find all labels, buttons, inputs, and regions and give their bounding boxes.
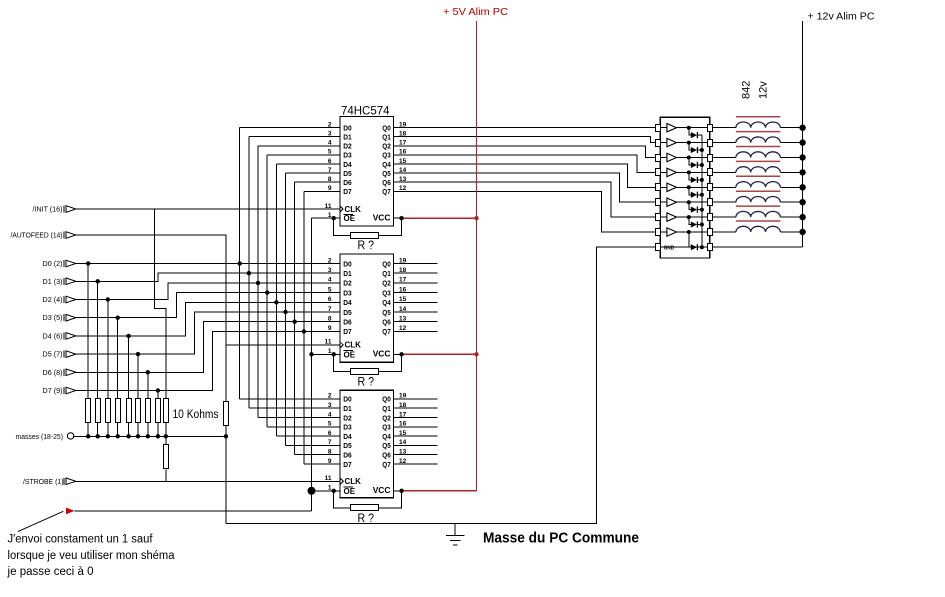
svg-text:2: 2 (328, 121, 332, 128)
svg-text:D3 (5): D3 (5) (43, 315, 63, 322)
svg-text:D7: D7 (343, 187, 352, 196)
svg-text:je passe ceci à 0: je passe ceci à 0 (6, 566, 93, 578)
svg-text:D5: D5 (343, 441, 352, 450)
svg-text:Q1: Q1 (382, 404, 391, 413)
svg-text:D4: D4 (343, 298, 352, 307)
svg-text:R ?: R ? (358, 511, 375, 525)
svg-text:1: 1 (328, 348, 332, 355)
svg-text:5: 5 (328, 421, 332, 428)
svg-text:13: 13 (399, 316, 407, 323)
svg-text:17: 17 (399, 411, 407, 418)
svg-text:OE: OE (344, 487, 356, 496)
svg-text:11: 11 (325, 339, 332, 346)
svg-text:D4 (6): D4 (6) (43, 333, 63, 340)
svg-text:D4: D4 (343, 160, 352, 169)
svg-text:12: 12 (399, 325, 407, 332)
svg-text:D2: D2 (343, 279, 352, 288)
svg-text:Q0: Q0 (382, 259, 391, 268)
svg-text:74HC574: 74HC574 (341, 104, 390, 118)
svg-text:8: 8 (328, 176, 332, 183)
svg-text:D5 (7): D5 (7) (43, 352, 63, 359)
svg-text:D6: D6 (343, 451, 352, 460)
svg-text:Q3: Q3 (382, 288, 391, 297)
svg-text:15: 15 (399, 430, 407, 437)
svg-text:lorsque je veu utiliser mon sh: lorsque je veu utiliser mon shéma (8, 550, 176, 562)
svg-text:VCC: VCC (373, 212, 391, 222)
svg-text:Q5: Q5 (382, 308, 391, 317)
svg-text:15: 15 (399, 158, 407, 165)
svg-text:D5: D5 (343, 169, 352, 178)
svg-text:4: 4 (328, 140, 332, 147)
svg-text:/STROBE (1): /STROBE (1) (23, 479, 64, 486)
svg-text:D0 (2): D0 (2) (43, 261, 63, 268)
svg-text:D1: D1 (343, 133, 352, 142)
svg-text:D1: D1 (343, 269, 352, 278)
svg-text:6: 6 (328, 430, 332, 437)
svg-text:Q2: Q2 (382, 142, 391, 151)
svg-text:17: 17 (399, 140, 407, 147)
svg-text:5: 5 (328, 286, 332, 293)
svg-text:OE: OE (344, 350, 356, 359)
svg-text:R ?: R ? (358, 374, 375, 388)
svg-text:Q1: Q1 (382, 133, 391, 142)
svg-text:/INIT (16): /INIT (16) (33, 207, 63, 214)
svg-text:19: 19 (399, 393, 407, 400)
svg-text:D1: D1 (343, 404, 352, 413)
svg-text:12: 12 (399, 185, 407, 192)
svg-text:Q2: Q2 (382, 279, 391, 288)
svg-text:3: 3 (328, 131, 332, 138)
svg-text:masses (18-25): masses (18-25) (16, 434, 64, 441)
svg-text:6: 6 (328, 296, 332, 303)
svg-text:14: 14 (399, 439, 407, 446)
svg-text:/AUTOFEED (14): /AUTOFEED (14) (11, 233, 63, 240)
svg-text:4: 4 (328, 411, 332, 418)
svg-text:11: 11 (325, 203, 332, 210)
svg-text:D3: D3 (343, 288, 352, 297)
svg-text:Q7: Q7 (382, 460, 391, 469)
svg-text:11: 11 (325, 475, 332, 482)
svg-text:18: 18 (399, 131, 407, 138)
svg-text:D1 (3): D1 (3) (43, 279, 63, 286)
svg-text:18: 18 (399, 402, 407, 409)
svg-text:13: 13 (399, 176, 407, 183)
svg-text:9: 9 (328, 325, 332, 332)
svg-text:D6: D6 (343, 318, 352, 327)
svg-text:+ 5V Alim PC: + 5V Alim PC (443, 6, 508, 18)
svg-text:Q5: Q5 (382, 169, 391, 178)
svg-text:Q5: Q5 (382, 441, 391, 450)
svg-text:2: 2 (328, 257, 332, 264)
svg-text:13: 13 (399, 449, 407, 456)
svg-text:Q4: Q4 (382, 432, 391, 441)
svg-text:OE: OE (344, 214, 356, 223)
svg-text:16: 16 (399, 149, 407, 156)
svg-text:Q3: Q3 (382, 423, 391, 432)
svg-text:D2: D2 (343, 413, 352, 422)
svg-text:8: 8 (328, 316, 332, 323)
svg-text:D0: D0 (343, 259, 352, 268)
svg-text:J'envoi constament un 1 sauf: J'envoi constament un 1 sauf (8, 534, 154, 546)
svg-text:CLK: CLK (345, 477, 362, 486)
svg-text:19: 19 (399, 257, 407, 264)
svg-text:3: 3 (328, 402, 332, 409)
svg-text:R ?: R ? (358, 238, 375, 252)
svg-text:D0: D0 (343, 123, 352, 132)
svg-text:D7 (9): D7 (9) (43, 388, 63, 395)
svg-text:Q4: Q4 (382, 160, 391, 169)
svg-text:14: 14 (399, 167, 407, 174)
svg-text:D7: D7 (343, 327, 352, 336)
svg-text:Q6: Q6 (382, 318, 391, 327)
svg-text:4: 4 (328, 277, 332, 284)
svg-text:12v: 12v (758, 81, 770, 99)
svg-text:D6 (8): D6 (8) (43, 370, 63, 377)
svg-text:12: 12 (399, 458, 407, 465)
svg-text:Q7: Q7 (382, 187, 391, 196)
svg-text:1: 1 (328, 212, 332, 219)
svg-text:7: 7 (328, 306, 332, 313)
svg-text:9: 9 (328, 458, 332, 465)
svg-text:VCC: VCC (373, 349, 391, 359)
svg-text:6: 6 (328, 158, 332, 165)
svg-text:10 Kohms: 10 Kohms (173, 409, 219, 421)
svg-text:D7: D7 (343, 460, 352, 469)
svg-text:Q2: Q2 (382, 413, 391, 422)
svg-text:19: 19 (399, 121, 407, 128)
svg-text:CLK: CLK (345, 341, 362, 350)
svg-text:7: 7 (328, 167, 332, 174)
svg-text:Q6: Q6 (382, 178, 391, 187)
svg-text:D0: D0 (343, 395, 352, 404)
svg-text:1: 1 (328, 485, 332, 492)
svg-text:D2 (4): D2 (4) (43, 297, 63, 304)
svg-text:Q3: Q3 (382, 151, 391, 160)
svg-text:VCC: VCC (373, 485, 391, 495)
svg-text:GND: GND (664, 246, 674, 252)
svg-text:D4: D4 (343, 432, 352, 441)
svg-text:18: 18 (399, 267, 407, 274)
svg-text:Q0: Q0 (382, 395, 391, 404)
svg-text:D2: D2 (343, 142, 352, 151)
svg-text:16: 16 (399, 286, 407, 293)
svg-text:D3: D3 (343, 151, 352, 160)
svg-text:7: 7 (328, 439, 332, 446)
svg-text:16: 16 (399, 421, 407, 428)
svg-text:Q0: Q0 (382, 123, 391, 132)
svg-text:D5: D5 (343, 308, 352, 317)
svg-text:2: 2 (328, 393, 332, 400)
svg-text:Masse du PC Commune: Masse du PC Commune (483, 530, 639, 547)
svg-text:D3: D3 (343, 423, 352, 432)
svg-text:842: 842 (741, 81, 753, 99)
svg-text:9: 9 (328, 185, 332, 192)
svg-text:Q7: Q7 (382, 327, 391, 336)
svg-text:14: 14 (399, 306, 407, 313)
svg-text:15: 15 (399, 296, 407, 303)
svg-text:5: 5 (328, 149, 332, 156)
svg-text:17: 17 (399, 277, 407, 284)
svg-text:CLK: CLK (345, 205, 362, 214)
svg-text:+ 12v Alim PC: + 12v Alim PC (808, 11, 875, 23)
svg-text:8: 8 (328, 449, 332, 456)
svg-text:D6: D6 (343, 178, 352, 187)
svg-text:Q1: Q1 (382, 269, 391, 278)
svg-text:Q4: Q4 (382, 298, 391, 307)
svg-text:Q6: Q6 (382, 451, 391, 460)
svg-text:3: 3 (328, 267, 332, 274)
